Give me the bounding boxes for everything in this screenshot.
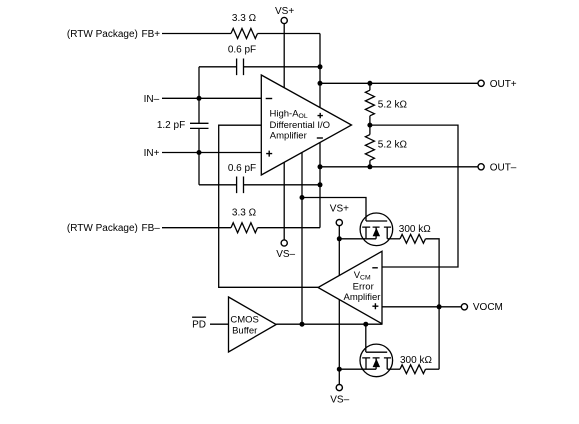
label PD (active low)	[192, 317, 206, 330]
junction PD net / top gate wire	[300, 195, 305, 200]
resistor R1 3.3 ohm (top)	[231, 29, 258, 39]
svg-text:VS+: VS+	[330, 203, 349, 214]
junction OUT- row / x=320	[318, 164, 323, 169]
wire bottom transistor right lead to R6	[387, 368, 400, 370]
resistor R2 3.3 ohm (bottom)	[231, 223, 258, 233]
junction divider top	[367, 81, 372, 86]
svg-text:CMOS: CMOS	[230, 314, 259, 325]
svg-text:300 kΩ: 300 kΩ	[400, 355, 432, 366]
svg-text:0.6 pF: 0.6 pF	[228, 163, 256, 174]
capacitor C1 0.6 pF (top)	[237, 59, 244, 76]
junction VS+ / top transistor lead	[337, 236, 342, 241]
svg-text:300 kΩ: 300 kΩ	[399, 224, 431, 235]
resistor R4 5.2 kohm (bottom)	[365, 135, 374, 161]
wire 0.6pF top row right segment	[244, 66, 321, 68]
svg-text:FB–: FB–	[142, 223, 161, 234]
terminal VS- (bottom)	[336, 385, 342, 391]
svg-text:FB+: FB+	[142, 29, 161, 40]
U1 positive output mark	[318, 113, 323, 118]
wire 0.6pF top row left segment	[199, 66, 237, 68]
svg-text:Buffer: Buffer	[232, 326, 257, 337]
svg-text:3.3 Ω: 3.3 Ω	[232, 13, 257, 24]
wire vertical OUT- net x=320 (lower section from amp bottom edge)	[319, 140, 321, 228]
wire FB+ lead	[162, 33, 231, 35]
terminal VS+ (top)	[281, 17, 287, 23]
svg-text:OUT+: OUT+	[490, 79, 517, 90]
junction OUT+ row / x=320	[318, 81, 323, 86]
U1 inverting input mark	[266, 98, 273, 100]
junction 0.6pF bottom / OUT- net	[318, 182, 323, 187]
wire FB- lead	[162, 227, 231, 229]
junction PD net / CMOS row	[300, 322, 305, 327]
svg-text:VOCM: VOCM	[473, 302, 503, 313]
svg-text:Amplifier: Amplifier	[344, 292, 381, 303]
wire divider lead OUT+ to R3	[369, 83, 371, 90]
junction divider midpoint	[367, 123, 372, 128]
terminal VS+ (at Q1)	[336, 220, 342, 226]
terminal VS- (mid)	[281, 240, 287, 246]
terminal OUT-	[478, 164, 484, 170]
junction CMOS row / bottom gate	[363, 322, 368, 327]
wire OUT- row	[320, 166, 478, 168]
svg-text:0.6 pF: 0.6 pF	[228, 45, 256, 56]
buffer U3 CMOS Buffer	[229, 297, 277, 352]
junction VS- / bottom rail	[337, 367, 342, 372]
wire IN+ row	[162, 152, 261, 154]
U2 noninverting input mark	[372, 303, 378, 309]
wire vertical OUT+ net x=320 (top section into amp top edge)	[319, 34, 321, 108]
svg-text:(RTW Package): (RTW Package)	[67, 223, 138, 234]
svg-text:3.3 Ω: 3.3 Ω	[232, 207, 257, 218]
wire 0.6pF bottom row right segment	[244, 184, 321, 186]
wire R2 to x=320 vertical	[258, 227, 321, 229]
wire corner 0.6pF row to IN- node	[198, 67, 200, 99]
wire IN- row	[162, 97, 261, 99]
wire PD input lead	[210, 323, 229, 325]
wire R6 right lead to VOCM vertical	[426, 368, 440, 370]
wire PD net vertical x=302 from main amp bottom edge to CMOS row	[301, 145, 303, 324]
U2 inverting input mark	[372, 267, 378, 269]
svg-text:VS–: VS–	[276, 249, 295, 260]
junction IN+ node	[197, 150, 202, 155]
svg-text:5.2 kΩ: 5.2 kΩ	[378, 139, 408, 150]
resistor R3 5.2 kohm (top)	[365, 90, 374, 116]
terminal OUT+	[478, 80, 484, 86]
resistor R5 300 kohm (top)	[400, 234, 426, 243]
svg-text:OUT–: OUT–	[490, 162, 517, 173]
wire R1 to OUT+ net corner	[258, 33, 321, 35]
wire divider lead R4 to OUT- row	[369, 160, 371, 166]
wire top transistor gate lead	[302, 198, 366, 222]
capacitor C2 1.2 pF (vertical)	[190, 98, 209, 152]
wire VS column x=339.3 (VS+ terminal through to VS- terminal)	[338, 226, 340, 385]
svg-text:IN–: IN–	[144, 94, 160, 105]
svg-text:Amplifier: Amplifier	[270, 131, 307, 142]
resistor R6 300 kohm (bottom)	[400, 365, 426, 374]
wire VS- stub from main amp bottom to VS- terminal	[283, 155, 285, 240]
svg-text:VS+: VS+	[275, 6, 294, 17]
wire top transistor left lead	[339, 238, 376, 240]
svg-text:VS–: VS–	[330, 395, 349, 406]
wire 0.6pF bottom row left segment	[199, 184, 237, 186]
wire bottom rail left lead	[339, 368, 376, 370]
wire bottom transistor gate lead	[365, 324, 367, 352]
junction IN- node	[197, 96, 202, 101]
svg-text:IN+: IN+	[144, 148, 160, 159]
wire top transistor right lead to R5	[387, 238, 400, 240]
wire CM feedback path: amp left edge to error amp output	[219, 125, 318, 287]
svg-text:Error: Error	[353, 281, 374, 292]
U1 noninverting input mark	[266, 151, 272, 157]
capacitor C3 0.6 pF (bottom)	[237, 177, 244, 194]
op-amp U1 High-AOL Differential I/O Amplifier	[261, 75, 351, 175]
svg-text:5.2 kΩ: 5.2 kΩ	[378, 100, 408, 111]
terminal VOCM	[461, 304, 467, 310]
wire divider mid segment	[369, 116, 371, 135]
svg-text:Differential I/O: Differential I/O	[270, 120, 331, 131]
junction VOCM node	[437, 304, 442, 309]
svg-text:PD: PD	[192, 320, 206, 331]
junction 0.6pF top / OUT+ net	[318, 64, 323, 69]
op-amp U2 VCM Error Amplifier	[318, 251, 382, 323]
U1 negative output mark	[317, 137, 323, 139]
wire divider midpoint to error amp inverting input	[370, 125, 458, 267]
transistor Q2 (bottom MOSFET)	[360, 344, 393, 377]
svg-text:1.2 pF: 1.2 pF	[157, 120, 185, 131]
wire IN+ node down to 0.6pF bottom row	[198, 153, 200, 185]
wire OUT+ row	[320, 82, 478, 84]
svg-text:(RTW Package): (RTW Package)	[67, 29, 138, 40]
wire error amp noninverting input row to VOCM terminal	[382, 306, 462, 308]
wire VS+ stub into main amp	[283, 24, 285, 100]
wire CMOS buffer output row	[276, 323, 382, 325]
transistor Q1 (top MOSFET)	[360, 213, 393, 246]
wire R5 to VOCM vertical	[426, 239, 440, 369]
junction divider bottom	[367, 164, 372, 169]
